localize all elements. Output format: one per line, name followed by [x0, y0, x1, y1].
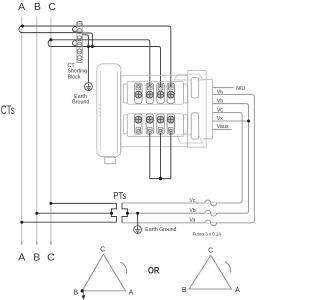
wire Vx stub [212, 120, 248, 122]
node dot A tap [21, 25, 24, 28]
PT primary meander left [22, 203, 117, 222]
svg-text:PTs: PTs [113, 190, 126, 202]
wire N/U stub [212, 87, 233, 89]
svg-text:Fuses 3 x 0.1A: Fuses 3 x 0.1A [193, 232, 222, 237]
svg-text:Va: Va [217, 90, 223, 96]
terminal unit top 2 [146, 83, 153, 103]
meter bottom right tray [177, 135, 203, 143]
terminal strip bottom [123, 114, 187, 137]
svg-text:B: B [34, 1, 41, 13]
terminal unit bottom 4 [167, 114, 174, 134]
wire C1 to meter terminal col2 [51, 40, 150, 87]
arrowhead phase C [50, 242, 52, 246]
terminal unit top 1 [135, 83, 142, 103]
wire Vaux stub [212, 128, 231, 130]
wire Vb secondary line [127, 212, 245, 214]
arrowhead phase B [36, 242, 38, 246]
wire Vb to fuse [212, 104, 248, 214]
terminal unit top 3 [157, 83, 164, 103]
rotation arc triangle 1 [121, 262, 127, 274]
svg-text:CTs: CTs [1, 105, 15, 117]
node dot common 2 [91, 45, 94, 48]
wire A2 stub down to common [82, 33, 92, 47]
earth ground 1 symbol [85, 83, 93, 91]
fuse F1 on Va line [205, 220, 217, 226]
svg-text:C: C [47, 252, 55, 264]
arrow below B vertex triangle 1 [82, 292, 85, 299]
wire Va secondary line [122, 222, 251, 224]
wire phase A vertical [21, 17, 23, 243]
terminal screws on block [77, 21, 82, 60]
node dot PT left center tap [110, 212, 113, 215]
phasor triangle 1 [82, 254, 125, 291]
meter right column [188, 71, 207, 148]
svg-text:C: C [48, 1, 56, 13]
terminal unit top 4 [167, 83, 174, 103]
svg-text:Vb: Vb [190, 208, 196, 214]
svg-text:C: C [100, 247, 105, 254]
svg-text:Ground: Ground [72, 99, 90, 105]
wire Vc secondary line [122, 202, 239, 204]
PT secondary meander right [122, 203, 127, 223]
svg-text:Vx: Vx [217, 116, 224, 122]
node dot triangle 1 B vertex [81, 289, 84, 292]
node dot B tap [35, 212, 38, 215]
wire phase A CT loop (U-bend) [19, 26, 22, 33]
rotation arc triangle 2 [225, 262, 231, 273]
node dot C PT tap [49, 202, 52, 205]
node dot Vx to Vb vertical [247, 120, 250, 123]
terminal unit bottom 2 [146, 114, 153, 134]
svg-text:A: A [235, 287, 240, 294]
phasor triangle 2 [189, 255, 231, 289]
wire A1 top to meter terminal col4 [22, 26, 171, 87]
svg-text:C: C [208, 247, 213, 254]
wire phase C vertical [50, 17, 52, 243]
node dot PT right center tap [126, 212, 129, 215]
earth ground 2 symbol [134, 226, 142, 234]
wires below meter joining [150, 133, 171, 179]
svg-text:N/U: N/U [236, 86, 245, 92]
svg-text:B: B [182, 287, 187, 294]
meter left body [97, 64, 121, 164]
svg-text:OR: OR [148, 265, 160, 276]
node dot C tap [49, 38, 52, 41]
wire Va to fuse [212, 95, 254, 223]
wire phase B to PT center tap [37, 212, 112, 214]
terminal unit bottom 3 [157, 114, 164, 134]
svg-text:B: B [33, 252, 40, 264]
arrowhead phase A [21, 242, 23, 246]
meter top right tray [174, 74, 202, 80]
wire ground tap down [137, 213, 139, 226]
CT1 arc [73, 27, 77, 32]
terminal strip top [123, 81, 187, 104]
svg-text:Vaux: Vaux [217, 124, 229, 130]
svg-text:Va: Va [190, 218, 196, 224]
wire C2 to meter terminal col3 [51, 47, 161, 88]
svg-text:A: A [18, 1, 25, 13]
node dot common 1 [87, 45, 90, 48]
connector block bottom [191, 113, 199, 139]
fuse F3 on Vc line [205, 200, 217, 206]
svg-text:Vc: Vc [190, 198, 196, 204]
wire phase C CT loop (U-bend) [48, 40, 51, 47]
fuse F2 on Vb line [205, 210, 217, 216]
node dot meter bottom join [159, 177, 162, 180]
svg-text:Vb: Vb [217, 99, 224, 105]
node dot A PT tap [20, 221, 23, 224]
terminal unit bottom 1 [135, 114, 142, 134]
svg-text:Block: Block [68, 74, 81, 80]
meter backplate [121, 75, 188, 147]
wire A2 return [22, 32, 82, 34]
svg-text:B: B [73, 289, 78, 296]
meter right step panel [203, 79, 213, 139]
svg-text:Earth Ground: Earth Ground [145, 227, 176, 233]
wire phase B vertical [36, 17, 38, 243]
wire Vc to fuse [212, 113, 242, 204]
connector block top [191, 77, 199, 98]
svg-text:A: A [18, 252, 25, 264]
CT2 arc [73, 41, 77, 46]
CT shorting block body [77, 22, 82, 63]
svg-text:Vc: Vc [217, 107, 224, 113]
node dot ground tap [136, 212, 139, 215]
svg-text:A: A [129, 289, 134, 296]
wire T2 stub to earth [82, 35, 88, 83]
